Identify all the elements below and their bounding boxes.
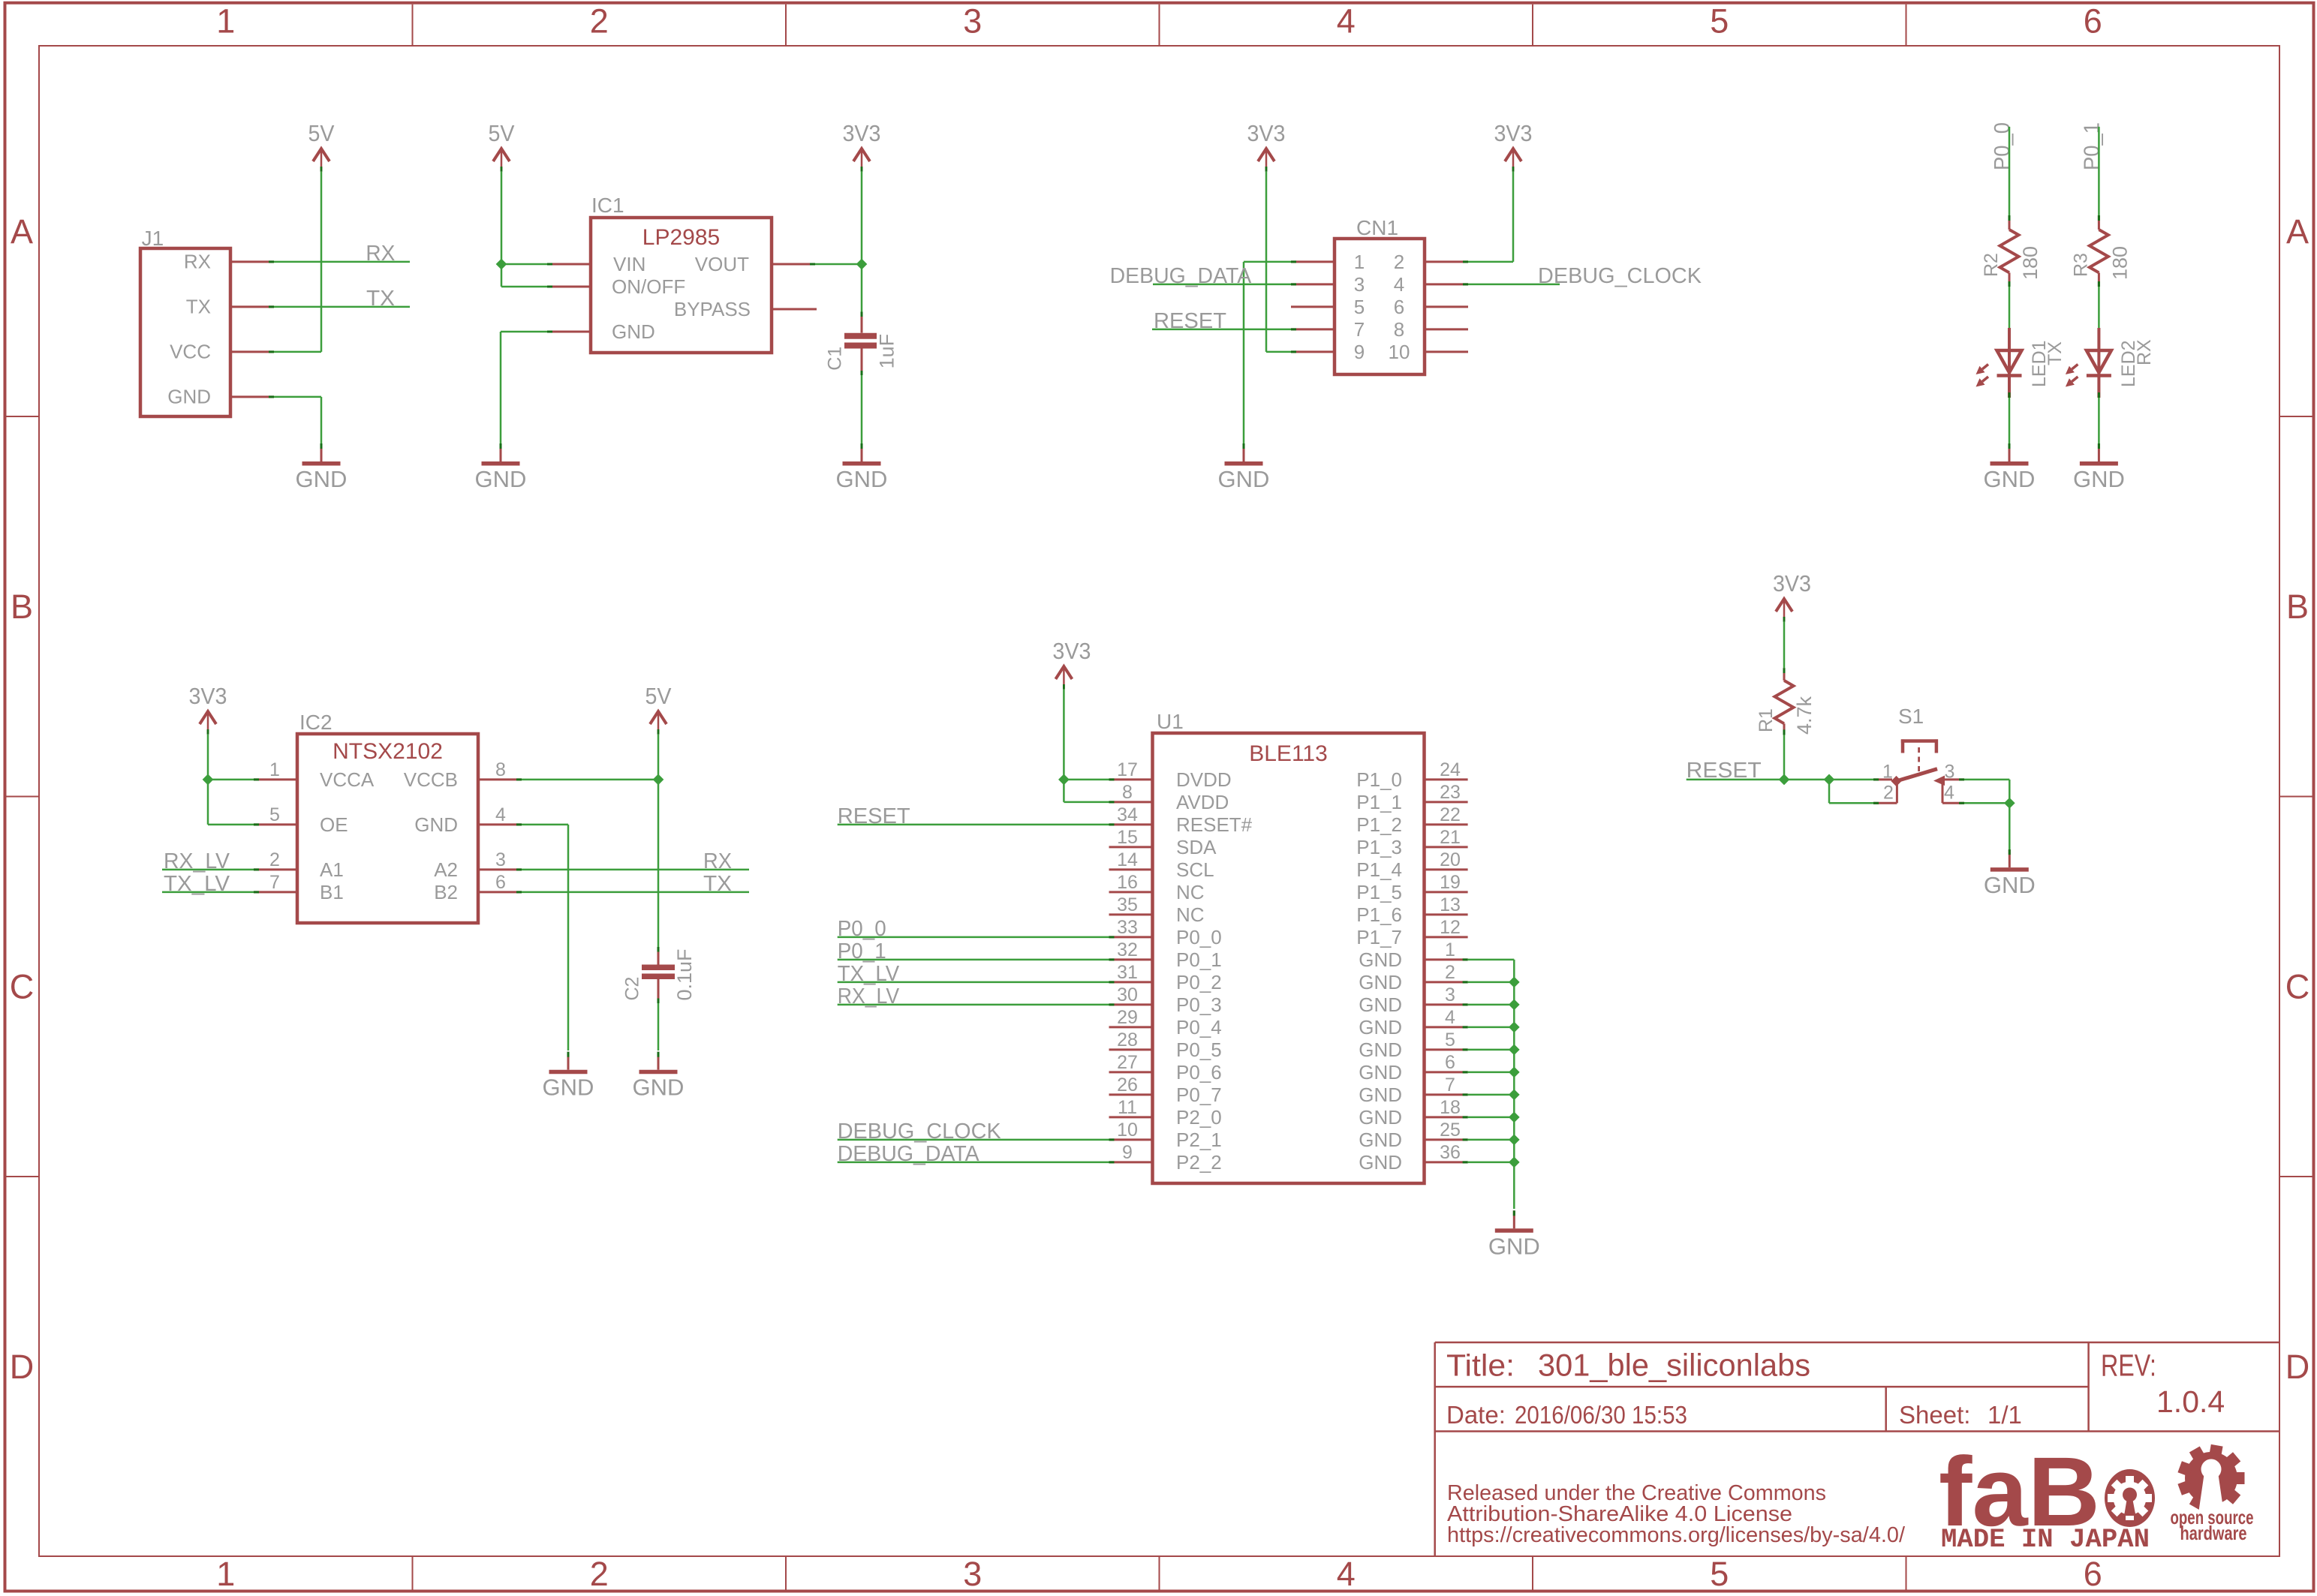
ground GND (CN1): [1218, 443, 1270, 492]
IC2 pin6 stub: [478, 891, 522, 893]
svg-text:GND: GND: [1359, 993, 1402, 1016]
CN1 pin2 stub: [1425, 260, 1468, 263]
capacitor C1: [844, 312, 877, 376]
svg-text:GND: GND: [836, 466, 888, 492]
U1 right pin 2 stub: [1425, 981, 1468, 983]
svg-text:R2: R2: [1981, 253, 2002, 277]
wire net TX_LV to U1 pin31: [838, 981, 1109, 984]
U1 right pin 5 stub: [1425, 1048, 1468, 1050]
svg-text:LP2985: LP2985: [642, 225, 720, 250]
svg-text:4: 4: [1445, 1007, 1455, 1028]
svg-text:GND: GND: [1359, 1038, 1402, 1061]
svg-text:2: 2: [1883, 783, 1894, 804]
svg-text:11: 11: [1118, 1097, 1137, 1118]
svg-text:3V3: 3V3: [1494, 120, 1533, 146]
svg-text:36: 36: [1440, 1142, 1461, 1163]
J1 pin TX stub: [230, 305, 274, 308]
CN1 pin7 stub: [1291, 328, 1335, 330]
U1 right pin 20 stub: [1425, 868, 1468, 870]
svg-text:P2_1: P2_1: [1176, 1129, 1222, 1151]
IC1 pin BYPASS stub: [772, 308, 817, 311]
power symbol 5V (IC2): [645, 683, 672, 735]
svg-text:P0_5: P0_5: [1176, 1038, 1222, 1061]
IC1 pin ON/OFF stub: [547, 286, 591, 288]
svg-text:B: B: [11, 588, 33, 626]
wire net RX_LV to U1 pin30: [838, 1004, 1109, 1006]
ground GND (U1): [1488, 1210, 1540, 1259]
U1 left pin 28 stub: [1109, 1048, 1153, 1050]
wire to IC1 VIN: [501, 263, 547, 266]
IC2 pin8 stub: [478, 778, 522, 780]
resistor R1 bottom lead: [1783, 723, 1786, 735]
wire J1 VCC to 5V: [274, 351, 321, 353]
svg-text:B1: B1: [320, 881, 344, 903]
wire branch down to S1 pin2 row: [1828, 780, 1831, 803]
svg-text:25: 25: [1440, 1120, 1461, 1141]
svg-text:GND: GND: [1359, 1151, 1402, 1174]
power symbol 5V (J1): [308, 120, 335, 172]
U1 right pin 7 stub: [1425, 1093, 1468, 1096]
resistor R2 bottom lead: [2009, 272, 2011, 287]
svg-text:P0_0: P0_0: [1991, 122, 2015, 170]
svg-text:5V: 5V: [645, 683, 672, 709]
wire net DEBUG_DATA to CN1 pin3: [1153, 284, 1291, 286]
svg-text:VCCA: VCCA: [320, 768, 375, 791]
svg-text:3V3: 3V3: [843, 120, 881, 146]
svg-text:24: 24: [1440, 759, 1461, 780]
wire net DEBUG_CLOCK from CN1 pin4: [1468, 284, 1560, 286]
U1 left pin 26 stub: [1109, 1093, 1153, 1096]
U1 left pin 35 stub: [1109, 913, 1153, 915]
junction GND bus pin 36: [1509, 1157, 1520, 1168]
frame column labels top 1-6: [216, 2, 2102, 41]
U1 right pin 23 stub: [1425, 801, 1468, 803]
svg-text:1: 1: [1882, 762, 1893, 783]
svg-text:5V: 5V: [489, 120, 515, 146]
svg-text:3: 3: [495, 849, 506, 870]
svg-text:P1_4: P1_4: [1356, 858, 1402, 881]
U1 right pin 1 stub: [1425, 958, 1468, 960]
ground GND (IC1): [475, 443, 527, 492]
wire net RESET to U1 pin34: [838, 824, 1109, 826]
svg-text:RESET#: RESET#: [1176, 813, 1253, 836]
junction GND bus pin 5: [1509, 1044, 1520, 1056]
svg-text:RX: RX: [184, 251, 211, 273]
svg-text:4: 4: [495, 804, 506, 825]
wire U1 GND pin 6: [1468, 1072, 1515, 1074]
svg-text:33: 33: [1117, 917, 1138, 938]
svg-text:GND: GND: [543, 1075, 594, 1101]
svg-text:TX: TX: [2045, 341, 2066, 365]
CN1 pin1 stub: [1291, 260, 1335, 263]
wire net TX from J1: [274, 306, 410, 308]
svg-text:BLE113: BLE113: [1249, 741, 1328, 766]
svg-text:3: 3: [1354, 273, 1365, 296]
wire 3V3 vertical at CN1: [1265, 172, 1268, 352]
svg-text:1: 1: [216, 2, 235, 41]
svg-text:P0_0: P0_0: [1176, 926, 1222, 948]
junction at IC2 VCCB: [653, 774, 664, 786]
IC2 pin3 stub: [478, 868, 522, 870]
svg-text:P0_3: P0_3: [1176, 993, 1222, 1016]
frame row labels right A-D: [2285, 212, 2310, 1386]
svg-text:P2_0: P2_0: [1176, 1106, 1222, 1129]
U1 left pin numbers: [1117, 759, 1138, 1163]
svg-text:P0_4: P0_4: [1176, 1016, 1222, 1038]
svg-text:GND: GND: [1359, 1016, 1402, 1038]
svg-text:14: 14: [1117, 849, 1138, 870]
svg-text:IC2: IC2: [299, 711, 333, 734]
svg-text:OE: OE: [320, 813, 348, 836]
svg-text:VCCB: VCCB: [404, 768, 458, 791]
svg-text:1: 1: [216, 1555, 235, 1593]
svg-text:16: 16: [1117, 872, 1138, 893]
svg-text:2: 2: [590, 2, 609, 41]
capacitor C2: [642, 947, 675, 1003]
wire J1 GND vertical: [320, 397, 323, 443]
U1 left pin 31 stub: [1109, 981, 1153, 983]
svg-text:NTSX2102: NTSX2102: [333, 739, 443, 764]
CN1 pin3 stub: [1291, 283, 1335, 285]
svg-text:21: 21: [1440, 827, 1461, 848]
svg-text:B: B: [2286, 588, 2309, 626]
ground GND (IC2): [543, 1052, 594, 1101]
power symbol 5V (IC1): [489, 120, 515, 172]
svg-text:RX: RX: [2134, 339, 2155, 365]
svg-text:23: 23: [1440, 782, 1461, 803]
IC2 pin2 stub: [254, 868, 297, 870]
CN1 pin5 stub: [1291, 305, 1335, 308]
ground GND (C2): [633, 1052, 685, 1101]
open source hardware logo gear: [2177, 1444, 2244, 1513]
svg-text:GND: GND: [1359, 948, 1402, 971]
wire U1 GND pin 25: [1468, 1139, 1515, 1141]
wire 5V vertical at IC1: [501, 172, 503, 287]
svg-text:D: D: [2285, 1348, 2310, 1386]
power symbol 3V3 (U1): [1052, 638, 1091, 690]
level shifter IC2 box: [297, 734, 478, 923]
power symbol 3V3 (IC1 output): [843, 120, 881, 172]
IC2 pin7 stub: [254, 891, 297, 893]
svg-text:GND: GND: [167, 386, 211, 408]
resistor R2: [1981, 230, 2042, 280]
svg-text:8: 8: [1122, 782, 1133, 803]
junction GND bus pin 18: [1509, 1112, 1520, 1123]
wire S1 pin3 right: [1964, 779, 2009, 781]
svg-text:4: 4: [1944, 783, 1954, 804]
svg-text:GND: GND: [296, 466, 348, 492]
svg-text:A1: A1: [320, 858, 344, 881]
svg-text:17: 17: [1117, 759, 1138, 780]
U1 left pin 16 stub: [1109, 891, 1153, 893]
ground GND (C1): [836, 443, 888, 492]
svg-text:MADE IN JAPAN: MADE IN JAPAN: [1941, 1525, 2150, 1555]
svg-text:R1: R1: [1756, 708, 1777, 732]
wire to U1 pin8 AVDD: [1064, 801, 1109, 804]
wire CN1 pin2 to 3V3: [1468, 261, 1513, 263]
wire 3V3 vertical at IC2: [207, 735, 209, 825]
svg-text:DEBUG_CLOCK: DEBUG_CLOCK: [1538, 264, 1702, 288]
CN1 pin names left column 1 3 5 7 9: [1354, 251, 1365, 363]
IC2 pin1 stub: [254, 778, 297, 780]
svg-text:TX: TX: [186, 296, 211, 318]
svg-text:7: 7: [1354, 318, 1365, 341]
wire IC2 pin8 to 5V: [522, 779, 658, 781]
wire net RESET at S1: [1687, 779, 1873, 781]
junction GND bus pin 4: [1509, 1022, 1520, 1033]
wire U1 GND pin 7: [1468, 1094, 1515, 1096]
svg-text:5: 5: [269, 804, 280, 825]
svg-text:P1_5: P1_5: [1356, 881, 1402, 903]
svg-text:29: 29: [1117, 1007, 1138, 1028]
IC1 pin VOUT stub: [772, 263, 815, 266]
svg-text:AVDD: AVDD: [1176, 791, 1229, 813]
wire net P0_1 to R3: [2098, 127, 2100, 215]
svg-text:RX: RX: [703, 849, 732, 873]
svg-text:P0_1: P0_1: [1176, 948, 1222, 971]
IC1 pin VIN stub: [547, 263, 591, 266]
wire net RX from J1: [274, 261, 410, 263]
svg-text:J1: J1: [142, 227, 164, 250]
junction at IC2 VCCA: [203, 774, 214, 786]
wire to IC1 ON/OFF: [501, 286, 547, 288]
svg-text:10: 10: [1117, 1120, 1138, 1141]
svg-text:P1_7: P1_7: [1356, 926, 1402, 948]
svg-text:9: 9: [1122, 1142, 1133, 1163]
svg-text:3V3: 3V3: [1052, 638, 1091, 664]
svg-text:Title:: Title:: [1446, 1348, 1515, 1383]
J1 pin GND stub: [230, 395, 274, 398]
junction at IC1 VOUT: [856, 259, 868, 270]
wire CN1 GND vertical: [1243, 262, 1245, 443]
ground GND (LED2): [2073, 443, 2125, 492]
svg-text:REV:: REV:: [2101, 1348, 2156, 1383]
wire net DEBUG_CLOCK to U1 pin10: [838, 1139, 1109, 1141]
junction RESET and R1: [1779, 774, 1790, 786]
wire IC2 pin4 GND horizontal: [522, 824, 568, 826]
S1 pin3 stub: [1945, 778, 1964, 780]
wire net P0_0 to R2: [2009, 127, 2011, 215]
svg-text:6: 6: [1394, 296, 1404, 318]
svg-text:6: 6: [2084, 2, 2102, 41]
wire U1 GND pin 5: [1468, 1049, 1515, 1051]
svg-text:P1_0: P1_0: [1356, 768, 1402, 791]
svg-text:RX: RX: [366, 242, 395, 266]
connector CN1 box: [1335, 239, 1425, 374]
svg-text:180: 180: [2108, 246, 2131, 280]
S1 pin4 stub: [1942, 802, 1964, 804]
svg-text:19: 19: [1440, 872, 1461, 893]
svg-text:Date:: Date:: [1446, 1401, 1506, 1429]
wire C2 to GND: [657, 1003, 660, 1050]
svg-text:TX: TX: [366, 287, 395, 311]
wire 3V3 vertical to C1: [861, 172, 863, 312]
svg-text:GND: GND: [1359, 1106, 1402, 1129]
U1 right pin 3 stub: [1425, 1003, 1468, 1005]
U1 right pin 24 stub: [1425, 778, 1468, 780]
svg-text:13: 13: [1440, 894, 1461, 915]
wire S1 pin3 down: [2009, 780, 2011, 803]
frame column ticks bottom: [413, 1557, 1906, 1590]
svg-text:31: 31: [1117, 962, 1138, 983]
svg-text:BYPASS: BYPASS: [674, 298, 751, 320]
IC2 pin5 stub: [254, 823, 297, 825]
ground GND (J1): [296, 443, 348, 492]
junction RESET branch to S1 pin2: [1824, 774, 1835, 786]
svg-text:P1_1: P1_1: [1356, 791, 1402, 813]
wire S1 to GND: [2009, 803, 2011, 849]
svg-text:6: 6: [2084, 1555, 2102, 1593]
open source hardware logo text: [2171, 1506, 2254, 1544]
svg-text:4: 4: [1337, 2, 1356, 41]
svg-text:5: 5: [1354, 296, 1365, 318]
U1 left pin 33 stub: [1109, 936, 1153, 938]
svg-text:VOUT: VOUT: [695, 253, 749, 275]
S1 pin2 stub: [1873, 802, 1897, 804]
U1 right pin 13 stub: [1425, 913, 1468, 915]
resistor R2 top lead: [2009, 215, 2011, 230]
svg-text:30: 30: [1117, 984, 1138, 1005]
U1 left pin 8 stub: [1109, 801, 1153, 803]
U1 right pin 12 stub: [1425, 936, 1468, 938]
frame row labels left A-D: [10, 212, 35, 1386]
svg-text:34: 34: [1117, 804, 1138, 825]
svg-text:GND: GND: [1218, 466, 1270, 492]
svg-text:3V3: 3V3: [189, 683, 227, 709]
svg-text:P1_6: P1_6: [1356, 903, 1402, 926]
wire IC1 VOUT to 3V3: [815, 263, 862, 266]
svg-text:9: 9: [1354, 341, 1365, 363]
svg-text:5: 5: [1445, 1029, 1455, 1050]
svg-text:4: 4: [1394, 273, 1404, 296]
S1 pin1 stub: [1873, 778, 1892, 780]
wire net RX from IC2 pin3: [522, 869, 749, 871]
wire IC1 GND horizontal: [501, 331, 547, 333]
svg-text:26: 26: [1117, 1075, 1138, 1096]
wire to IC2 pin5: [208, 824, 254, 826]
U1 left pin 17 stub: [1109, 778, 1153, 780]
wire 5V vertical at IC2: [657, 735, 660, 947]
svg-text:7: 7: [269, 872, 280, 893]
svg-text:GND: GND: [1359, 1129, 1402, 1151]
svg-text:22: 22: [1440, 804, 1461, 825]
wire net DEBUG_DATA to U1 pin9: [838, 1162, 1109, 1164]
svg-text:8: 8: [1394, 318, 1404, 341]
svg-text:1: 1: [269, 759, 280, 780]
frame row ticks right: [2280, 416, 2312, 1177]
frame row ticks left: [7, 416, 39, 1177]
svg-text:GND: GND: [1488, 1233, 1540, 1259]
wire 3V3 vertical at U1: [1063, 690, 1065, 802]
wire U1 GND pin 18: [1468, 1117, 1515, 1119]
connector J1 box: [140, 248, 230, 416]
CN1 pin6 stub: [1425, 305, 1468, 308]
resistor R1 top lead: [1783, 668, 1786, 681]
CN1 pin8 stub: [1425, 328, 1468, 330]
regulator IC1 box: [591, 218, 772, 353]
U1 right pin 36 stub: [1425, 1161, 1468, 1163]
svg-text:NC: NC: [1176, 881, 1205, 903]
svg-text:4.7k: 4.7k: [1793, 696, 1816, 735]
svg-text:6: 6: [495, 872, 506, 893]
svg-text:A: A: [11, 212, 33, 251]
resistor R3: [2070, 230, 2131, 280]
U1 left pin 27 stub: [1109, 1071, 1153, 1073]
svg-text:2: 2: [1394, 251, 1404, 273]
J1 pin VCC stub: [230, 350, 274, 353]
svg-text:1uF: 1uF: [876, 334, 898, 369]
svg-text:U1: U1: [1157, 710, 1184, 733]
U1 right pin 6 stub: [1425, 1071, 1468, 1073]
FaBo logo: [1939, 1436, 2155, 1546]
wire IC2 pin4 GND vertical: [567, 825, 570, 1050]
svg-text:GND: GND: [2073, 466, 2125, 492]
svg-text:GND: GND: [633, 1075, 685, 1101]
junction at IC1 VIN: [496, 259, 507, 270]
CN1 pin4 stub: [1425, 283, 1468, 285]
junction GND bus pin 3: [1509, 999, 1520, 1011]
wire net TX_LV to IC2 pin7: [162, 891, 254, 894]
svg-text:D: D: [10, 1348, 35, 1386]
svg-text:VCC: VCC: [170, 341, 211, 363]
wire net TX from IC2 pin6: [522, 891, 749, 894]
svg-text:A2: A2: [434, 858, 458, 881]
svg-text:P0_7: P0_7: [1176, 1084, 1222, 1106]
wire CN1 pin1 to GND net: [1244, 261, 1291, 263]
svg-text:12: 12: [1440, 917, 1461, 938]
ground GND (S1): [1984, 849, 2036, 898]
U1 left pin 32 stub: [1109, 958, 1153, 960]
svg-text:P0_6: P0_6: [1176, 1061, 1222, 1084]
junction GND bus pin 25: [1509, 1135, 1520, 1146]
svg-text:DVDD: DVDD: [1176, 768, 1232, 791]
svg-text:20: 20: [1440, 849, 1461, 870]
wire U1 GND pin 1: [1468, 959, 1515, 961]
svg-text:1: 1: [1445, 939, 1455, 960]
wire 3V3 vertical right of CN1: [1512, 172, 1515, 262]
svg-text:https://creativecommons.org/li: https://creativecommons.org/licenses/by-…: [1447, 1523, 1906, 1547]
svg-text:SDA: SDA: [1176, 836, 1217, 858]
U1 right pin 18 stub: [1425, 1116, 1468, 1118]
svg-text:3: 3: [1445, 984, 1455, 1005]
wire U1 GND pin 2: [1468, 981, 1515, 984]
svg-text:1/1: 1/1: [1988, 1401, 2022, 1429]
svg-text:TX: TX: [703, 872, 732, 896]
wire U1 GND pin 36: [1468, 1162, 1515, 1164]
svg-text:1.0.4: 1.0.4: [2156, 1384, 2225, 1419]
svg-text:NC: NC: [1176, 903, 1205, 926]
LED LED2: [2066, 328, 2111, 398]
svg-text:GND: GND: [1984, 872, 2036, 898]
svg-text:VIN: VIN: [613, 253, 645, 275]
switch S1 body: [1891, 739, 1945, 803]
junction GND bus pin 2: [1509, 977, 1520, 988]
svg-text:7: 7: [1445, 1075, 1455, 1096]
junction GND bus pin 6: [1509, 1067, 1520, 1078]
wire C1 to GND: [861, 375, 863, 443]
wire LED1 to GND: [2009, 398, 2011, 443]
wire S1 pin4 right: [1964, 802, 2009, 804]
U1 right pin names: [1356, 768, 1402, 1174]
wire R1 to RESET net: [1783, 735, 1786, 780]
svg-text:GND: GND: [1359, 1061, 1402, 1084]
svg-text:3: 3: [963, 1555, 982, 1593]
U1 right pin 25 stub: [1425, 1138, 1468, 1141]
svg-text:C: C: [2285, 968, 2310, 1006]
svg-text:GND: GND: [1359, 971, 1402, 993]
wire J1 GND horizontal: [274, 396, 321, 398]
svg-text:GND: GND: [1984, 466, 2036, 492]
